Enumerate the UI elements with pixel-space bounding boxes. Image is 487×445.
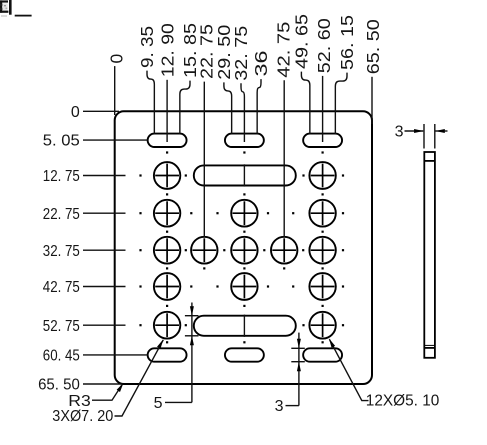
12X dia5.10 leader with arrow: [329, 339, 368, 400]
svg-text:65. 50: 65. 50: [38, 377, 80, 394]
left ordinate dim 22.75: leader: [83, 212, 126, 214]
dim 3 dimension line with arrows: [298, 333, 300, 406]
top ordinate dim 65.50: leader: [371, 77, 373, 124]
left ordinate dim 5.05: leader: [83, 139, 148, 141]
left ordinate dim 0: leader: [83, 110, 119, 112]
slot long row-52.75: [194, 316, 296, 336]
hole D3 (hole with center mark): [231, 273, 257, 300]
left ordinate dim 52.75: leader: [83, 324, 126, 326]
hole B5 (hole with center mark): [309, 200, 335, 227]
svg-text:12. 90: 12. 90: [157, 23, 177, 77]
svg-text:65. 50: 65. 50: [363, 19, 383, 74]
side view slot edge bottom thin: [424, 344, 435, 346]
top ordinate dim 29.50: leader: [224, 82, 232, 133]
dim 5 dimension line with arrows: [191, 303, 193, 403]
svg-text:52. 60: 52. 60: [314, 18, 334, 73]
left ordinate dim 32.75: leader: [83, 249, 126, 251]
svg-text:36: 36: [251, 51, 271, 77]
svg-text:3: 3: [395, 124, 404, 141]
hole A1 (hole with center mark): [154, 162, 180, 189]
hole C2 (hole with center mark): [191, 237, 217, 264]
svg-text:5: 5: [154, 395, 163, 412]
svg-text:3XØ7. 20: 3XØ7. 20: [52, 408, 113, 425]
hole C3 (hole with center mark): [231, 237, 257, 264]
left ordinate dim 65.50: leader: [83, 383, 123, 385]
3X dia7.20 leader with arrow: [115, 340, 164, 416]
hole A5 (hole with center mark): [309, 162, 335, 189]
svg-text:42. 75: 42. 75: [43, 279, 80, 296]
top ordinate dim 9.35: leader: [147, 71, 154, 134]
svg-text:60. 45: 60. 45: [43, 348, 80, 365]
slot top-left: [148, 134, 187, 147]
side view slot edge bottom: [424, 347, 435, 349]
top ordinate dim 12.90: leader: [166, 80, 168, 142]
svg-text:5. 05: 5. 05: [43, 133, 80, 150]
slot bottom-left: [148, 348, 187, 361]
hole D5 (hole with center mark): [309, 273, 335, 300]
top ordinate dim 52.60: leader: [322, 76, 324, 142]
top-left corner icon fragment: [0, 0, 32, 17]
slot bottom-right: [303, 348, 342, 361]
centerline through long slots col 32.75: [243, 164, 245, 186]
left ordinate dim 12.75: leader: [83, 175, 126, 177]
slot top-right: [303, 134, 342, 147]
slot bottom-middle: [225, 348, 264, 361]
svg-text:56. 15: 56. 15: [337, 15, 357, 70]
hole E1 (hole with center mark): [154, 312, 180, 339]
svg-text:0: 0: [106, 54, 126, 64]
svg-text:49. 65: 49. 65: [292, 14, 312, 69]
top ordinate dim 22.75: leader: [203, 82, 205, 238]
dim 3 extension lines: [291, 347, 305, 349]
left ordinate dim 60.45: leader: [83, 354, 148, 356]
thickness dim line left with arrow: [405, 130, 424, 132]
hole E5 (hole with center mark): [309, 312, 335, 339]
slot long row-12.75: [194, 165, 296, 185]
hole D1 (hole with center mark): [154, 273, 180, 300]
thickness dim extension lines: [423, 124, 425, 149]
top ordinate dim 36: leader: [257, 79, 261, 134]
thickness dim line right with arrow: [436, 130, 448, 132]
centerline dots: [139, 151, 344, 343]
svg-text:3: 3: [275, 398, 284, 415]
dim 3 leader to text: [286, 405, 299, 407]
slot top-middle: [225, 134, 264, 147]
svg-text:12. 75: 12. 75: [43, 168, 80, 185]
R3 leader with arrow: [92, 386, 122, 401]
hole C1 (hole with center mark): [154, 237, 180, 264]
top ordinate dim 56.15: leader: [335, 73, 347, 134]
left ordinate dim 42.75: leader: [83, 286, 126, 288]
svg-text:32. 75: 32. 75: [231, 26, 251, 81]
side view slot edge top: [424, 160, 435, 162]
dim 5 extension lines: [185, 315, 199, 317]
top ordinate dim 0: leader: [114, 66, 116, 115]
svg-text:12XØ5. 10: 12XØ5. 10: [366, 393, 440, 410]
hole B3 (hole with center mark): [231, 200, 257, 227]
svg-text:32. 75: 32. 75: [43, 243, 80, 260]
top ordinate dim 15.85: leader: [180, 81, 190, 134]
svg-text:42. 75: 42. 75: [273, 22, 293, 78]
front view plate outline R3 corners: [115, 111, 372, 384]
dim 5 leader to text: [165, 401, 192, 403]
hole C4 (hole with center mark): [271, 237, 297, 264]
hole C5 (hole with center mark): [309, 237, 335, 264]
svg-text:0: 0: [71, 104, 80, 121]
svg-text:52. 75: 52. 75: [43, 318, 80, 335]
top ordinate dim 32.75: leader: [241, 83, 244, 142]
svg-text:22. 75: 22. 75: [43, 206, 80, 223]
top ordinate dim 42.75: leader: [283, 80, 285, 237]
hole B1 (hole with center mark): [154, 200, 180, 227]
top ordinate dim 49.65: leader: [301, 72, 309, 134]
svg-text:9. 35: 9. 35: [137, 26, 157, 68]
side view plate body: [424, 152, 435, 358]
